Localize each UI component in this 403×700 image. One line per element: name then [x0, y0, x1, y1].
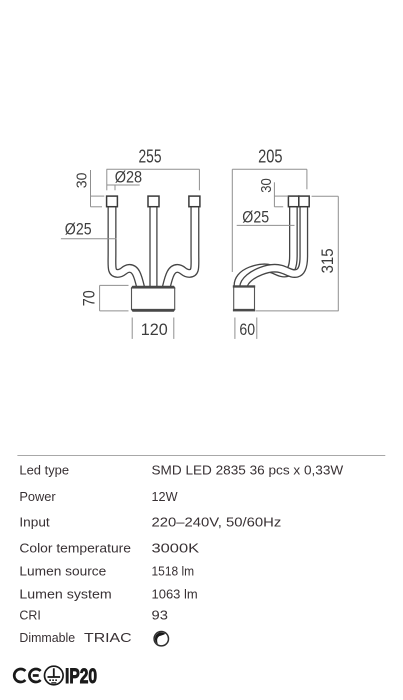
svg-text:315: 315	[318, 248, 337, 273]
front view: left cap	[107, 196, 118, 207]
table row CRI	[19, 608, 168, 623]
front view: dim 30 lines	[91, 170, 105, 207]
CE mark letter C	[14, 669, 25, 682]
side view: dim 315 lines	[256, 196, 339, 311]
svg-text:Lumen source: Lumen source	[19, 564, 106, 579]
svg-text:205: 205	[258, 147, 282, 167]
svg-text:TRIAC: TRIAC	[84, 630, 132, 645]
side view: dim 60 ticks	[235, 318, 257, 339]
svg-text:1063 lm: 1063 lm	[152, 586, 198, 601]
front view: dim 255 line	[107, 169, 200, 190]
side view: base top lip	[233, 285, 255, 287]
svg-text:Ø25: Ø25	[65, 220, 92, 239]
table top rule	[17, 455, 385, 457]
front view: right cap	[189, 196, 200, 207]
side view: dim Ø25 leader line	[237, 224, 295, 226]
table row Color temperature	[19, 540, 199, 555]
front view: base bottom lip	[131, 309, 176, 311]
svg-text:220–240V, 50/60Hz: 220–240V, 50/60Hz	[152, 515, 282, 530]
dimmer TRIAC icon	[154, 632, 168, 646]
table row Lumen system	[19, 586, 197, 601]
svg-text:CRI: CRI	[19, 608, 40, 623]
front view: dim Ø28 line	[107, 185, 140, 190]
svg-text:255: 255	[139, 147, 162, 167]
table row Lumen source	[19, 564, 194, 579]
front view: left arm tube	[112, 206, 141, 287]
front view: dim Ø25 leader line	[61, 238, 117, 240]
table row Power	[19, 489, 178, 504]
front view: base top lip	[131, 286, 176, 289]
side view: dim 205 line	[232, 169, 307, 272]
svg-text:SMD LED 2835 36 pcs x 0,33W: SMD LED 2835 36 pcs x 0,33W	[152, 462, 344, 477]
side view: rear tube	[238, 206, 293, 287]
svg-text:60: 60	[239, 320, 255, 339]
svg-text:Lumen system: Lumen system	[19, 586, 111, 601]
front view: dim 120 ticks	[132, 318, 174, 339]
svg-text:Input: Input	[19, 515, 50, 530]
front view: dim 70 lines	[100, 285, 129, 311]
side view: cap pair	[288, 196, 309, 207]
CE mark letter E	[29, 669, 40, 682]
front view: base body	[132, 288, 175, 309]
table row Input	[19, 515, 281, 530]
svg-text:30: 30	[259, 178, 275, 193]
svg-text:93: 93	[152, 608, 168, 623]
table row Dimmable TRIAC	[19, 630, 131, 645]
svg-text:Power: Power	[19, 489, 56, 504]
front view: middle tube	[149, 206, 157, 287]
table row Led type	[19, 462, 344, 477]
side view: base bottom lip	[233, 309, 255, 311]
svg-text:12W: 12W	[152, 489, 179, 504]
svg-text:Ø25: Ø25	[242, 208, 269, 227]
svg-text:30: 30	[75, 173, 91, 189]
svg-text:IP20: IP20	[65, 665, 97, 688]
svg-text:1518 lm: 1518 lm	[152, 564, 195, 579]
svg-text:3000K: 3000K	[152, 540, 200, 555]
protective earth symbol	[45, 666, 64, 685]
svg-text:Dimmable: Dimmable	[19, 630, 75, 645]
svg-text:70: 70	[79, 290, 98, 306]
svg-text:Led type: Led type	[19, 462, 69, 477]
front view: middle cap	[148, 196, 159, 207]
svg-text:Color temperature: Color temperature	[19, 540, 131, 555]
front view: right arm tube	[166, 206, 195, 287]
side view: dim 30 lines	[274, 182, 288, 207]
side view: base body	[234, 287, 255, 309]
svg-text:120: 120	[141, 320, 168, 339]
side view: front tube	[244, 206, 304, 287]
svg-text:Ø28: Ø28	[115, 167, 142, 186]
